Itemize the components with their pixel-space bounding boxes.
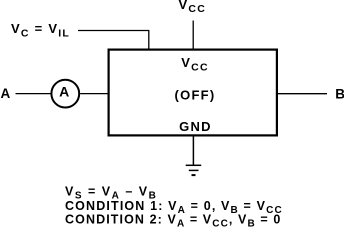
wire box bottom to ground	[192, 137, 194, 166]
svg-text:A: A	[1, 86, 12, 101]
wire box to terminal B	[278, 93, 327, 95]
svg-text:VCC: VCC	[181, 55, 209, 73]
ammeter A1 circle	[51, 80, 79, 108]
ground symbol	[186, 165, 202, 175]
svg-text:A: A	[59, 84, 70, 100]
svg-text:GND: GND	[179, 119, 212, 134]
switch box U1	[109, 50, 277, 136]
wire VCC vertical into box top	[192, 21, 194, 50]
wire ammeter to box	[80, 93, 108, 95]
svg-text:CONDITION 2: VA = VCC, VB = 0: CONDITION 2: VA = VCC, VB = 0	[65, 212, 281, 229]
svg-text:VC = VIL: VC = VIL	[11, 21, 70, 39]
svg-text:(OFF): (OFF)	[175, 88, 216, 103]
wire A terminal to ammeter	[16, 93, 51, 95]
wire VC horizontal	[78, 30, 149, 32]
wire VC vertical into box top	[148, 31, 150, 50]
svg-text:B: B	[335, 86, 344, 101]
svg-text:VCC: VCC	[179, 0, 207, 15]
